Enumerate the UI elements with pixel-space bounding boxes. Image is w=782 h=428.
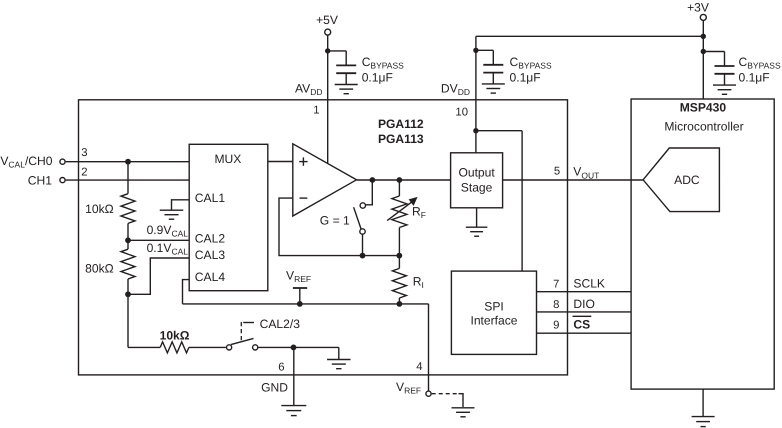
svg-text:+3V: +3V xyxy=(687,1,710,15)
svg-text:Stage: Stage xyxy=(461,180,493,194)
svg-text:CAL2: CAL2 xyxy=(195,232,226,246)
svg-text:3: 3 xyxy=(81,147,87,159)
svg-text:80kΩ: 80kΩ xyxy=(85,262,114,276)
svg-text:SCLK: SCLK xyxy=(573,276,605,290)
svg-text:CAL2/3: CAL2/3 xyxy=(260,317,301,331)
svg-text:Output: Output xyxy=(458,166,495,180)
svg-text:CAL1: CAL1 xyxy=(195,191,226,205)
svg-text:CS: CS xyxy=(573,317,590,331)
svg-text:5: 5 xyxy=(554,165,560,177)
svg-text:SPI: SPI xyxy=(484,299,504,313)
svg-text:GND: GND xyxy=(261,381,288,395)
svg-text:10kΩ: 10kΩ xyxy=(85,202,114,216)
svg-text:VCAL/CH0: VCAL/CH0 xyxy=(0,154,52,170)
svg-text:10kΩ: 10kΩ xyxy=(160,329,190,343)
svg-text:ADC: ADC xyxy=(674,173,700,187)
svg-text:RI: RI xyxy=(413,275,424,291)
svg-text:+5V: +5V xyxy=(316,13,339,27)
svg-text:MSP430: MSP430 xyxy=(680,101,727,115)
svg-text:CH1: CH1 xyxy=(28,174,52,188)
svg-text:PGA112: PGA112 xyxy=(378,117,424,131)
svg-text:Interface: Interface xyxy=(470,313,517,327)
svg-text:2: 2 xyxy=(81,167,87,179)
svg-text:CBYPASS: CBYPASS xyxy=(362,55,404,71)
svg-text:4: 4 xyxy=(416,361,422,373)
svg-text:PGA113: PGA113 xyxy=(378,132,424,146)
svg-text:VREF: VREF xyxy=(396,380,421,396)
svg-text:0.1VCAL: 0.1VCAL xyxy=(147,241,189,257)
svg-text:0.1μF: 0.1μF xyxy=(510,70,541,84)
svg-text:G = 1: G = 1 xyxy=(320,214,350,228)
svg-text:1: 1 xyxy=(313,104,319,116)
svg-text:CBYPASS: CBYPASS xyxy=(739,55,781,71)
svg-text:9: 9 xyxy=(553,319,559,331)
svg-text:CBYPASS: CBYPASS xyxy=(510,55,552,71)
svg-text:RF: RF xyxy=(412,205,426,221)
svg-text:0.9VCAL: 0.9VCAL xyxy=(147,223,189,239)
svg-text:CAL3: CAL3 xyxy=(195,248,226,262)
svg-text:CAL4: CAL4 xyxy=(195,270,226,284)
svg-text:DVDD: DVDD xyxy=(441,81,470,97)
svg-text:VREF: VREF xyxy=(286,269,311,285)
svg-text:DIO: DIO xyxy=(573,297,595,311)
svg-text:AVDD: AVDD xyxy=(295,81,323,97)
svg-text:10: 10 xyxy=(455,106,468,118)
svg-text:7: 7 xyxy=(553,278,559,290)
svg-text:Microcontroller: Microcontroller xyxy=(664,120,743,134)
svg-text:6: 6 xyxy=(278,362,284,374)
svg-text:0.1μF: 0.1μF xyxy=(739,70,770,84)
svg-text:8: 8 xyxy=(553,299,559,311)
svg-text:MUX: MUX xyxy=(214,152,241,166)
svg-text:0.1μF: 0.1μF xyxy=(362,70,393,84)
svg-text:VOUT: VOUT xyxy=(573,165,599,181)
